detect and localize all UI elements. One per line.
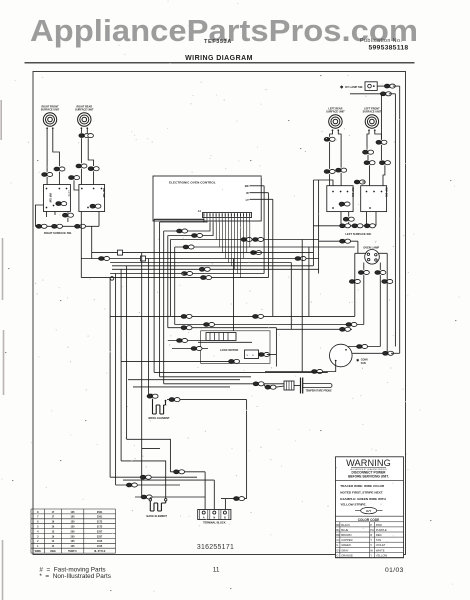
connector oval y471.8 [174,470,185,474]
lock switch contact box [245,350,259,359]
wire SW3 SW4 bottom drops [340,212,342,226]
page border [33,72,406,555]
svg-text:1015: 1015 [97,540,103,543]
connector oval lamp right [375,270,386,274]
wire SU4 left into SW4 [369,165,371,185]
connector oval SU4 right 2 [380,161,391,165]
svg-text:PU: PU [370,528,374,532]
wire harness h269.3 [112,268,319,270]
temperature probe flange [300,378,302,394]
wire harness h262.5 [110,262,291,264]
color code table [336,522,404,558]
lock motor bar [198,341,252,343]
wire run y477.2 [110,476,197,478]
svg-text:COPPER: COPPER [341,538,352,542]
wire broil right run [167,399,169,401]
connector oval on left leg [349,279,360,283]
infinite switch SW3 box [327,186,353,212]
svg-text:TEMPERATURE PROBE: TEMPERATURE PROBE [306,389,333,392]
svg-text:150: 150 [71,526,76,529]
wire probe into plug [276,386,284,387]
wire SU2 leads to plug [80,129,82,133]
connector oval inside SW2 [90,204,101,208]
SW1 terminal dots and marks [46,188,48,190]
connector oval lamp feed 1 [384,84,395,88]
wire SW2 bottom drop [98,212,100,227]
connector oval on right leg [382,279,393,283]
svg-text:O: O [336,553,338,557]
svg-text:ELECTRONIC OVEN CONTROL: ELECTRONIC OVEN CONTROL [169,181,216,185]
wire v399.7 right riser [399,86,401,353]
svg-text:BK: BK [336,523,340,527]
wire lamp feed right to v399.7 [393,85,400,87]
SW3 terminal dots [332,191,334,193]
svg-text:A: A [203,516,205,520]
surface unit SU1 coil [43,113,56,126]
wire SU3 right into SW3 [340,173,342,186]
terminal block TB1 [198,510,231,520]
svg-text:LT: LT [246,198,250,202]
wire v308.9 [308,247,310,316]
connector oval SU4 left [363,150,374,154]
svg-text:11: 11 [213,567,220,574]
wire SU1 right lead [53,129,60,166]
connector oval conv right [383,351,394,355]
wire pin harness h235.5 with oval [168,223,213,236]
connector oval SU4 right [376,140,387,144]
svg-text:BU: BU [336,528,340,532]
wire EOC stub drops [263,186,265,274]
wire lamp right lead [379,263,381,270]
svg-text:G: G [336,543,338,547]
EOC pin strip [203,213,252,218]
svg-text:316255171: 316255171 [197,544,234,551]
wire pin harness left h222 [160,221,207,224]
svg-text:TERMINAL BLOCK: TERMINAL BLOCK [203,521,226,524]
svg-text:WIRING DIAGRAM: WIRING DIAGRAM [185,55,253,62]
svg-text:TAN: TAN [376,538,381,542]
svg-text:W: W [246,191,249,195]
wire pin harness left h219 [154,218,204,220]
connector ovals on left harness [36,224,47,228]
svg-text:WIRE: WIRE [35,550,42,553]
svg-text:INF SW: INF SW [49,193,53,203]
wire run y371.5 [265,371,312,373]
svg-text:RIGHT SURFACE SW.: RIGHT SURFACE SW. [44,231,72,235]
tracer wire G/Y symbol [355,510,361,512]
wire SU3 left lead [330,131,333,137]
wire v302 join [301,371,303,373]
infinite switch SW1 box [44,185,71,212]
svg-text:SURFACE UNIT: SURFACE UNIT [41,109,60,112]
wire lamp enclosure top [355,252,387,254]
convection fan motor M2 circle [330,344,353,367]
wire lock feed y340.5 with oval [168,340,206,342]
wire run y460.9 [121,461,166,499]
wire v302.2 [301,240,303,372]
svg-text:LEFT SURFACE SW.: LEFT SURFACE SW. [345,232,371,236]
svg-text:OVEN LAMP: OVEN LAMP [363,245,379,249]
svg-text:BK: BK [245,184,249,188]
svg-text:BROIL ELEMENT: BROIL ELEMENT [149,416,171,420]
connector oval between SW3 SW4 [354,180,365,184]
svg-text:150: 150 [71,521,76,524]
svg-text:FAN: FAN [361,362,366,365]
wire pin1 left to bundle [154,219,204,222]
wire bundle B2 x163.7 [163,231,165,384]
oven lamp OL1 circle [365,249,380,264]
svg-text:SURFACE UNIT: SURFACE UNIT [363,111,382,114]
wire lamp enclosure right leg [386,253,388,353]
wire SW2 left drop x81.3 [80,212,82,278]
svg-text:SURFACE UNIT: SURFACE UNIT [326,111,345,114]
svg-text:G/Y: G/Y [366,509,371,513]
lock motor M1 body [206,333,236,341]
svg-text:BROWN: BROWN [341,533,351,537]
wire long run y316.4 [110,315,355,317]
title rule [25,62,415,64]
connector oval lock switch [259,352,270,356]
wire pin harness h231 with oval [164,223,210,232]
wire broil left feed [149,393,153,395]
svg-text:RED: RED [376,533,382,537]
SW4 terminal dots [366,191,368,193]
svg-text:N: N [213,516,215,520]
wire bake left lead [149,497,151,499]
svg-text:Publication No.: Publication No. [360,38,402,44]
temperature probe plug [284,381,294,390]
svg-text:OV LAMP SW.: OV LAMP SW. [345,85,363,89]
wire lock feed y348.5 with oval [172,348,208,350]
svg-text:YELLOW: YELLOW [376,553,388,557]
wire conv fan top feed y346.5 [348,346,380,348]
wire pin drops continue [215,223,217,240]
connector oval below SW1 [62,213,73,217]
wire oval stub [355,181,358,183]
wire run y498.6 [221,498,247,500]
connector oval SU3 right [336,168,347,172]
svg-text:B: B [224,516,226,520]
svg-text:105: 105 [71,511,76,514]
wire run y497 [135,496,205,498]
connector oval between switches SW1/SW2 [69,176,80,180]
wire SU1 right lead lower [58,172,60,185]
wire lock box right leg x276.4 [275,328,277,367]
lock motor enclosure box [201,331,270,364]
wire run y372.4 [154,371,328,373]
wire run y448.6 [142,448,160,450]
svg-text:BEFORE SERVICING UNIT.: BEFORE SERVICING UNIT. [348,475,389,479]
svg-text:SURFACE UNIT: SURFACE UNIT [75,109,94,112]
surface unit SU3 coil [329,115,342,128]
svg-text:PINK: PINK [376,523,382,527]
conv fan terminals [345,349,347,351]
svg-text:3257: 3257 [97,530,103,533]
wire lamp enclosure left leg [354,253,356,316]
wire feed box3 left [313,180,333,186]
svg-text:NOTED FIRST, STRIPE NEXT.: NOTED FIRST, STRIPE NEXT. [340,491,383,495]
wire bundle B1 x121.1 [120,269,122,461]
svg-text:TEMP C: TEMP C [68,550,77,553]
wire lock bottom run y361.4 [121,360,240,362]
surface unit SU2 coil [78,113,91,126]
wire SU4 left mid [367,155,369,160]
svg-text:BLUE: BLUE [341,528,348,532]
wire lamp left lead lower [363,275,365,324]
svg-text:PURPLE: PURPLE [376,528,387,532]
wire gauge table [31,509,116,553]
wire lamp box right [377,85,386,87]
connector oval below SW3 [343,217,354,221]
connector oval SU3 left 2 [324,169,335,173]
wire run y439.3 [127,439,171,472]
wire conv right y353.3 [352,352,384,354]
wire bundle B2 x159.6 [159,222,161,377]
SU2 terminal dots [81,127,83,129]
wire bundle B2 x148.6 [148,259,150,395]
wire bundle B3 x167.8 [167,236,169,328]
wire SW1 bottom stub [67,212,69,213]
svg-text:* = Non-Illustrated Parts: * = Non-Illustrated Parts [39,573,111,580]
connector oval inside SW1 [56,202,67,206]
svg-text:WHITE: WHITE [376,548,385,552]
svg-text:YELLOW STRIPE.: YELLOW STRIPE. [340,503,366,507]
oven lamp indicator box [365,82,377,91]
wire harness h273.5 [110,273,264,275]
infinite switch SW4 box [361,186,387,212]
wire SU4 left lead [367,131,369,150]
wire long run y327.7 [168,327,277,329]
infinite switch SW2 box [79,185,105,212]
SU3 terminal dots [332,129,334,131]
svg-text:BLACK: BLACK [341,523,350,527]
svg-text:200: 200 [71,535,76,538]
wire run y379.7 [128,379,240,381]
svg-text:INF SW: INF SW [351,188,355,198]
connector oval SU4 left 2 [364,161,375,165]
svg-text:V: V [370,543,372,547]
warning box [336,457,404,558]
wire SW1 bottom stubs [46,212,48,218]
wire harness h252.6 with junction square [92,252,204,254]
wire SU4 right lead [375,131,382,140]
wire v395.4 right riser [394,94,396,347]
connector oval conv bottom [312,369,323,373]
wire SW4 bottom drop [375,212,377,226]
svg-text:WARNING: WARNING [346,458,391,468]
wire conv bottom lead [322,362,335,372]
connector oval lamp left [358,270,369,274]
wire SU3 left lower [329,142,331,169]
svg-text:R: R [370,533,372,537]
node junction circle [110,277,114,281]
SU4 terminal dots [368,129,370,131]
wire lamp enclosure feed [357,241,359,253]
svg-text:105: 105 [71,545,76,548]
svg-text:3173: 3173 [97,521,103,524]
wire run y480.1 [123,479,214,481]
wire terminal A riser [204,472,206,510]
wire left harness run y226 [35,225,99,227]
wire harness corner down x91.7 [91,226,93,258]
connector oval conv top [357,344,368,348]
svg-text:VIOLET: VIOLET [376,543,386,547]
wire SU2 left lead lower [80,138,82,163]
wire SU4 right riser from lamp feed [380,94,382,140]
svg-text:BAKE ELEMENT: BAKE ELEMENT [147,514,168,518]
wire bundle B2 x141.7 [141,253,143,497]
bake element terminals [149,499,151,501]
connector oval on SU1 right lead [54,167,65,171]
svg-text:LOCK MOTOR: LOCK MOTOR [220,348,238,352]
wire bundle B2 x154.1 [153,219,155,372]
svg-text:01/03: 01/03 [385,567,404,574]
connector oval lamp feed 2 [380,92,391,96]
connector oval y477.2 [140,475,151,479]
svg-text:W: W [370,548,373,552]
wire run y471.8 [170,471,205,473]
svg-text:BR: BR [336,533,340,537]
connector oval SU2 left [76,164,87,168]
connector oval y498.6 [234,497,245,501]
wire long run y324.5 [175,324,364,326]
wire SU4 right into SW4 [383,165,385,185]
svg-text:CU: CU [336,538,340,542]
svg-text:P: P [370,523,372,527]
wire harness h265.8 [112,265,313,267]
svg-text:105: 105 [71,540,76,543]
wire run y241.2 [319,240,358,242]
wire oval to switch SW2 [74,180,79,190]
broil terminal dot [165,400,167,402]
svg-text:3173: 3173 [97,526,103,529]
wire SU4 right mid [380,145,382,160]
svg-text:L1 H2: L1 H2 [67,190,70,197]
connector ovals on row y225.8 [340,224,351,228]
wire SU3 left into SW3 [329,174,331,186]
surface unit SU4 coil [365,115,378,128]
wire v233.5 to lock motor [233,259,235,331]
wire lamp feed 2 to v395.4 [389,93,396,95]
svg-text:5995385118: 5995385118 [369,44,409,51]
electronic oven control EOC box [153,176,261,221]
connector oval y497 [141,495,152,499]
connector oval broil right [169,398,180,402]
svg-text:UL STYLE: UL STYLE [94,550,106,553]
SU1 terminal dots [46,127,48,129]
wire SU2 right lead lower [88,138,93,166]
wire lock box top y329.3 [276,328,352,330]
svg-text:GY: GY [336,548,340,552]
scan artifact streaks [1,100,3,600]
wire bundle B1 x126.6 [126,266,128,440]
wire terminal B riser [224,499,226,510]
svg-text:COLOR CODE: COLOR CODE [358,518,380,522]
svg-text:200: 200 [71,530,76,533]
wire SU1 left lead lower [46,177,48,185]
connector oval lock bottom [229,359,240,363]
wire probe feed y383.8 [164,383,254,385]
connector oval on SU1 left lead [42,172,53,176]
wire run y376.8 [160,376,251,378]
connector oval pair below SU2 [79,134,90,138]
connector oval inside SW3 [339,202,350,206]
oven lamp terminals [367,253,369,255]
wire run y386.9 [133,386,230,388]
wire harness h247 [175,246,355,248]
wire SU3 right lead [338,131,341,168]
wire conv right end [391,352,400,354]
wire SU2 left into switch [80,169,82,185]
wire lamp left lead [363,263,365,270]
wire probe link [264,384,266,387]
wire lamp feed 2 [350,93,383,95]
wire SU1 left lead [46,129,48,172]
svg-text:GREEN: GREEN [341,543,351,547]
bake element BK1 comb [150,501,165,511]
wire v313.4 [312,180,314,266]
connector oval broil left [147,394,158,398]
wire bundle B3 x170.4 mid [169,240,171,317]
svg-text:EXAMPLE: GREEN WIRE WITH: EXAMPLE: GREEN WIRE WITH [340,497,386,501]
connector oval SU2 right [88,167,99,171]
wire SW3 bottom to row [348,212,350,217]
svg-text:GRAY: GRAY [341,548,349,552]
connector oval y485 [126,483,137,487]
warning divider 2 [336,515,404,517]
wire EOC pin drops [203,218,205,223]
svg-text:Y: Y [370,553,372,557]
svg-text:AWG: AWG [50,550,56,553]
svg-text:1015: 1015 [97,545,103,548]
wire v291.3 [290,263,292,330]
wire run y485 [116,484,180,486]
svg-text:2561: 2561 [97,516,103,519]
wire bundle B1 x115.6 [115,274,117,486]
svg-text:TEF353A: TEF353A [204,39,232,45]
broil element BR1 comb [0,0,1,1]
SW2 terminal dots and marks [81,188,83,190]
wire harness h277.6 with node [81,277,268,279]
warning divider 1 [336,479,404,481]
wire harness h258.5 with junction square [81,258,318,260]
svg-text:ORANGE: ORANGE [341,553,353,557]
svg-text:3257: 3257 [97,535,103,538]
svg-text:105: 105 [71,516,76,519]
wire lamp right lead lower [379,275,381,346]
wire v246.6 broil to terminal [246,400,248,499]
wire plug to flange [294,385,300,387]
svg-text:INF SW: INF SW [385,188,389,198]
wire bundle B3 x174.7 [174,247,176,325]
svg-text:TRACER WIRE: WIRE COLOR: TRACER WIRE: WIRE COLOR [340,484,385,488]
wire SU2 right into switch [93,171,95,184]
connector oval probe 1 [253,382,264,386]
wire SW1 left feed [35,205,43,226]
wire terminal N riser [213,480,215,509]
wire v318.6 [318,180,320,274]
wire lock switch to right leg [259,354,262,356]
svg-text:INF SW: INF SW [102,188,106,198]
wire row y225.8 [313,225,376,227]
wire harness h239.5 [170,239,318,241]
svg-text:2561: 2561 [97,511,103,514]
wire bundle B1 x110.1 [109,278,111,478]
temperature probe stem [303,383,330,385]
connector oval SU3 left [324,137,335,141]
connector oval probe 2 [265,385,276,389]
